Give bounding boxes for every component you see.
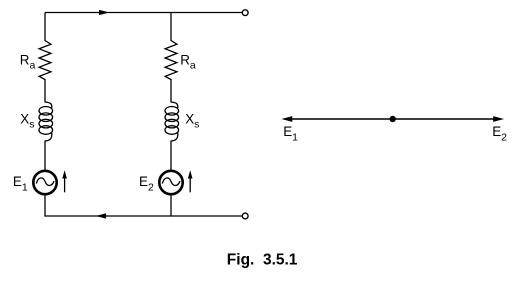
wire branch2 bottom (170, 195, 172, 217)
phasor arrowhead E1 (left) (283, 117, 292, 122)
sine symbol inside E1 (36, 178, 54, 186)
wire branch1 mid (44, 79, 46, 103)
wire top bus (45, 12, 242, 14)
inductor Xs (branch 1) (39, 102, 53, 141)
sine symbol inside E2 (162, 178, 180, 186)
resistor Ra (branch 1) (39, 41, 51, 80)
polarity arrow up (E1) (62, 170, 67, 192)
phasor origin dot (390, 116, 396, 122)
current arrow on top wire (right) (99, 10, 108, 15)
svg-text:Xs: Xs (20, 112, 34, 131)
wire branch1 bottom (44, 195, 46, 217)
svg-text:Ra: Ra (20, 52, 36, 71)
wire bottom bus (45, 215, 242, 217)
phasor arrowhead E2 (right) (494, 117, 503, 122)
svg-text:E2: E2 (492, 124, 507, 144)
inductor Xs (branch 2) (165, 102, 179, 141)
wire branch2 top (170, 13, 172, 42)
terminal T2 (bottom right open circle) (242, 213, 248, 219)
source E1 (AC source circle) (33, 171, 56, 194)
wire branch1 lower (44, 141, 46, 171)
phasor axis line E1-E2 (288, 118, 498, 120)
polarity arrow up (E2) (188, 170, 193, 192)
svg-text:Ra: Ra (180, 52, 196, 71)
svg-text:E1: E1 (13, 174, 28, 194)
terminal T1 (top right open circle) (242, 10, 248, 16)
svg-text:Xs: Xs (185, 112, 199, 131)
svg-text:E1: E1 (283, 124, 298, 144)
wire branch2 mid (170, 79, 172, 103)
svg-text:Fig. 3.5.1: Fig. 3.5.1 (227, 252, 298, 269)
resistor Ra (branch 2) (165, 41, 177, 80)
current arrow on bottom wire (left) (97, 214, 106, 219)
svg-text:E2: E2 (139, 174, 154, 194)
source E2 (AC source circle) (159, 171, 182, 194)
wire branch1 top (44, 13, 46, 42)
wire branch2 lower (170, 141, 172, 171)
